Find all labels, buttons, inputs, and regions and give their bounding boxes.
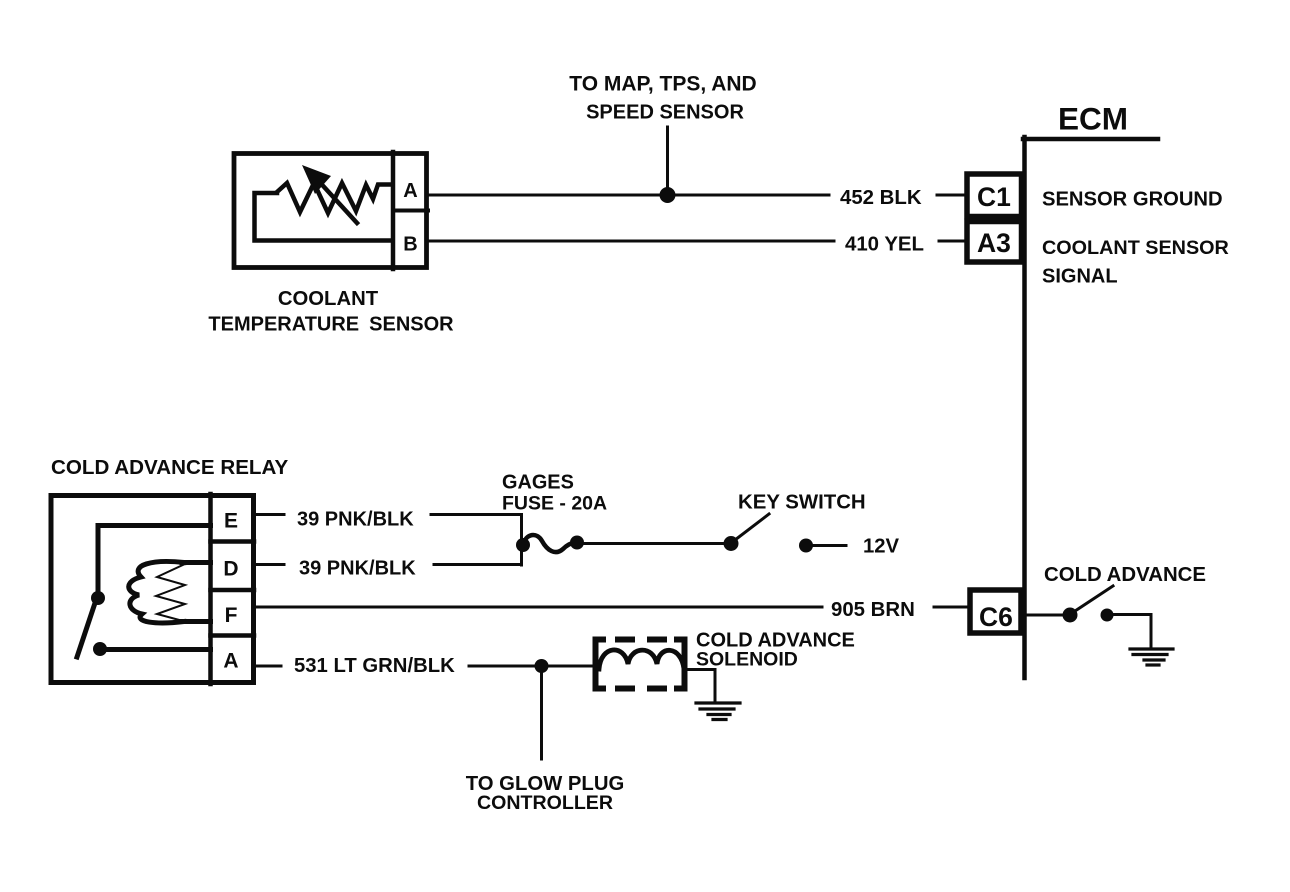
divider D/F: [211, 588, 255, 593]
svg-text:CONTROLLER: CONTROLLER: [477, 792, 613, 814]
cold advance relay box: [51, 496, 254, 683]
key switch arm: [735, 514, 769, 540]
sensor pin column divider: [391, 152, 396, 269]
svg-text:410 YEL: 410 YEL: [845, 234, 924, 256]
relay pin column divider: [208, 494, 213, 684]
wire: dash from 452 BLK label into connector C1: [937, 194, 964, 197]
ECM boundary vertical line: [1022, 137, 1027, 678]
relay switch lower contact: [93, 642, 107, 656]
label COOLANT SENSOR SIGNAL: [1042, 237, 1229, 288]
cold advance solenoid dashed box: left bracket: [596, 640, 607, 689]
svg-text:SPEED SENSOR: SPEED SENSOR: [586, 102, 744, 124]
relay coil top lead to pin D: [182, 560, 211, 565]
label TO GLOW PLUG CONTROLLER: [466, 773, 625, 814]
label COLD ADVANCE SOLENOID: [696, 630, 855, 671]
divider between pin A and pin B cells: [393, 209, 428, 213]
svg-text:E: E: [224, 510, 238, 533]
thermistor resistor zigzag: [277, 183, 391, 213]
cold advance solenoid coil: [599, 650, 684, 669]
svg-text:C6: C6: [979, 602, 1013, 632]
svg-text:A: A: [403, 180, 417, 202]
svg-text:COLD ADVANCE RELAY: COLD ADVANCE RELAY: [51, 456, 288, 479]
cold advance solenoid dashed box: bottom dashes: [615, 686, 635, 692]
svg-text:39 PNK/BLK: 39 PNK/BLK: [299, 558, 416, 580]
wire: 39 PNK/BLK from D to fuse: [434, 563, 522, 566]
ECM cold advance switch right contact: [1101, 609, 1114, 622]
ECM top bar: [1023, 137, 1158, 142]
node: junction to glow plug controller: [535, 659, 549, 673]
svg-text:B: B: [403, 234, 417, 256]
svg-text:COLD ADVANCE: COLD ADVANCE: [1044, 564, 1206, 586]
fuse left terminal: [516, 538, 530, 552]
svg-text:GAGES: GAGES: [502, 472, 574, 494]
wire: 905 BRN from relay pin F to label: [256, 606, 822, 609]
wire: 410 YEL from sensor pin B to label: [429, 240, 834, 243]
svg-text:ECM: ECM: [1058, 101, 1128, 137]
relay switch pivot contact: [91, 591, 105, 605]
svg-text:FUSE - 20A: FUSE - 20A: [502, 493, 607, 515]
svg-text:D: D: [223, 558, 238, 581]
relay coil inner zigzag: [156, 564, 185, 621]
svg-text:39 PNK/BLK: 39 PNK/BLK: [297, 509, 414, 531]
wire: dash from 905 BRN label into connector C6: [934, 606, 968, 609]
wire: 452 BLK from sensor pin A to label: [429, 194, 829, 197]
svg-text:A: A: [223, 650, 238, 673]
key switch right contact: [799, 539, 813, 553]
relay switch arm: [77, 603, 95, 657]
label: COOLANT TEMPERATURE SENSOR: [208, 288, 454, 336]
wire: 531 LT GRN/BLK to solenoid: [469, 665, 596, 668]
relay internal wire from contact to pin A: [100, 647, 211, 652]
svg-text:SENSOR GROUND: SENSOR GROUND: [1042, 189, 1223, 211]
wire: dash from relay pin A: [256, 665, 281, 668]
svg-text:COOLANT SENSOR: COOLANT SENSOR: [1042, 237, 1229, 259]
svg-text:F: F: [225, 604, 238, 627]
wire: dash from relay pin D: [256, 563, 284, 566]
cold advance solenoid dashed box: top dashes: [615, 637, 635, 643]
connector C6 box: [970, 590, 1021, 633]
node: junction on 452 BLK wire: [660, 187, 676, 203]
svg-text:COOLANT: COOLANT: [278, 288, 379, 310]
wire: solenoid to ground: [688, 670, 715, 703]
connector C1 box: [967, 174, 1022, 217]
svg-text:905 BRN: 905 BRN: [831, 599, 915, 621]
wire: key switch to 12V: [813, 544, 846, 547]
svg-text:TEMPERATURE SENSOR: TEMPERATURE SENSOR: [208, 314, 454, 336]
wire: switch to ground: [1113, 615, 1151, 649]
svg-text:KEY SWITCH: KEY SWITCH: [738, 492, 866, 514]
wire: C6 to switch: [1026, 614, 1063, 617]
connector A3 box: [967, 222, 1022, 263]
svg-text:C1: C1: [977, 182, 1011, 212]
label: TO MAP, TPS, AND SPEED SENSOR: [569, 73, 756, 124]
ECM cold advance switch left contact: [1063, 608, 1078, 623]
wire: stub down to glow plug controller: [540, 666, 543, 759]
svg-text:TO MAP, TPS, AND: TO MAP, TPS, AND: [569, 73, 756, 96]
wire: stub from MAP/TPS label down to junction: [666, 127, 669, 195]
thermistor arrow head: [302, 165, 331, 194]
relay coil bottom lead to pin F: [182, 619, 211, 624]
svg-text:A3: A3: [977, 228, 1011, 258]
key switch left contact: [724, 536, 739, 551]
wire: dash from relay pin E: [256, 513, 284, 516]
divider F/A: [211, 633, 255, 638]
thermistor internal loop wire: [255, 193, 392, 241]
divider E/D: [211, 539, 255, 544]
coolant temperature sensor box: [234, 154, 427, 268]
fuse right terminal: [570, 536, 584, 550]
wire: 39 PNK/BLK from E to fuse: [431, 515, 522, 566]
svg-text:531 LT GRN/BLK: 531 LT GRN/BLK: [294, 655, 455, 677]
ECM cold advance switch arm: [1075, 586, 1113, 611]
cold advance solenoid dashed box: right bracket: [674, 640, 685, 689]
svg-text:12V: 12V: [863, 536, 900, 558]
svg-text:SOLENOID: SOLENOID: [696, 649, 798, 671]
ground (solenoid): [696, 703, 740, 720]
label GAGES FUSE - 20A: [502, 472, 607, 515]
ground (ECM cold advance): [1130, 649, 1173, 665]
relay internal wire from pin E to switch: [98, 526, 211, 594]
fuse element (wavy): [523, 535, 575, 552]
svg-text:452 BLK: 452 BLK: [840, 187, 922, 209]
svg-text:SIGNAL: SIGNAL: [1042, 266, 1118, 288]
wire: fuse to key switch: [577, 542, 729, 545]
thermistor variable-resistor arrow shaft: [315, 177, 357, 223]
relay coil body: [129, 562, 184, 623]
wire: dash from 410 YEL label into connector A3: [939, 240, 964, 243]
